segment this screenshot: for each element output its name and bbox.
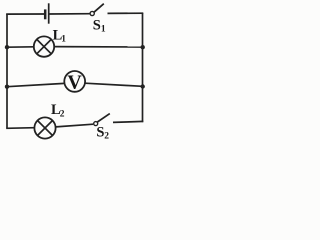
svg-text:1: 1 <box>61 34 66 44</box>
svg-text:1: 1 <box>101 24 106 34</box>
battery B1 short plate <box>44 9 47 19</box>
wire top left segment <box>6 13 44 15</box>
wire row2 left segment <box>7 46 34 48</box>
svg-text:2: 2 <box>104 131 109 141</box>
switch S2 lever <box>97 114 109 122</box>
node junction dot left row2 <box>5 45 9 49</box>
wire switch S2 to bottom right corner <box>113 121 143 122</box>
switch S1 pivot circle <box>90 11 94 15</box>
wire row4 left segment <box>6 127 34 130</box>
lamp L2 cross stroke 2 <box>38 121 53 136</box>
wire right rail <box>142 13 144 122</box>
wire left rail <box>6 14 8 129</box>
node junction dot right row3 <box>141 84 145 88</box>
svg-text:2: 2 <box>60 109 65 119</box>
svg-text:S: S <box>93 18 101 34</box>
node junction dot left row3 <box>5 85 9 89</box>
lamp L2 cross stroke 1 <box>38 121 53 136</box>
switch S2 pivot circle <box>94 122 98 126</box>
wire switch S1 to top right corner <box>108 12 144 14</box>
voltmeter V circle <box>64 71 85 92</box>
battery B1 long plate <box>48 3 50 23</box>
lamp L1 cross stroke 2 <box>37 40 51 54</box>
wire row3 left segment <box>7 83 64 86</box>
wire row3 right segment <box>85 83 143 86</box>
lamp L1 cross stroke 1 <box>37 40 51 54</box>
lamp L2 circle <box>34 117 55 138</box>
switch S1 lever <box>94 4 104 13</box>
lamp L1 circle <box>34 36 54 56</box>
wire row2 right segment <box>54 46 142 48</box>
svg-text:V: V <box>67 71 82 93</box>
wire lamp L2 to switch S2 <box>56 124 93 127</box>
wire battery to switch S1 <box>50 13 91 15</box>
node junction dot right row2 <box>141 45 145 49</box>
